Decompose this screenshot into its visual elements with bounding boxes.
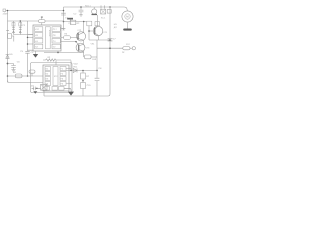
diode D1 on left bus (box with lead) <box>6 30 14 41</box>
capacitor box branch 2 <box>19 23 22 26</box>
wire right long vertical x110 to bottom rail <box>108 7 110 96</box>
wire left vertical bus x7.5 <box>7 11 9 83</box>
svg-text:K1.1: K1.1 <box>101 17 106 20</box>
svg-text:SF: SF <box>122 51 125 54</box>
svg-text:R10: R10 <box>92 58 97 61</box>
crystal ZQ box with X <box>41 84 47 90</box>
capacitor C2 to ground from top rail x81 <box>79 7 84 16</box>
ground stem under IC1 <box>35 51 37 54</box>
IC2 pin box L4 <box>45 82 51 86</box>
svg-text:M1: M1 <box>114 23 118 26</box>
svg-text:R7: R7 <box>86 75 90 78</box>
IC2 pin box R4 <box>60 82 66 86</box>
terminal circle right edge <box>130 47 135 50</box>
wires bus to IC1 left pins <box>28 35 34 51</box>
small box below rail x107-111 <box>107 10 111 14</box>
switch contacts on top rail <box>101 5 105 8</box>
svg-text:C8: C8 <box>99 67 103 70</box>
node dot at (71,70.5) <box>70 70 71 71</box>
motor M1 <box>122 11 133 22</box>
node dot at (83,70.5) <box>82 70 84 72</box>
svg-text:C8: C8 <box>53 34 57 37</box>
transistor VT2 <box>61 22 86 41</box>
node dot at (36.9,88.3) <box>36 88 37 89</box>
wire under IC1 y52.5 <box>44 52 84 54</box>
IC1 bottom pin stub x58 <box>57 51 59 53</box>
dark blob above fuse <box>41 17 43 18</box>
wire top-right rail y7 to motor <box>64 7 128 11</box>
resistor R2 box on mid rail <box>70 20 75 24</box>
IC2 outline <box>43 65 69 91</box>
wire step vertical x63.5 <box>63 7 65 30</box>
wire into IC2 y76 <box>8 75 44 77</box>
resistor pill after VT3 emitter <box>84 55 97 59</box>
IC1 pin box R1 <box>52 27 60 32</box>
node junction at (7.5,10.5) <box>7 10 9 12</box>
wire corner down x71 <box>70 61 72 71</box>
capacitor C1 on x63.5 <box>61 13 66 15</box>
ground triangle at bottom rail <box>68 92 74 96</box>
IC2 pin box L3 <box>45 77 51 81</box>
svg-text:SA1.1: SA1.1 <box>85 4 92 7</box>
diode VD2 <box>73 69 77 73</box>
svg-text:R3: R3 <box>48 56 52 59</box>
node junction at (63.5,10.5) <box>63 10 65 12</box>
svg-text:ДП: ДП <box>114 26 117 29</box>
ground triangle under IC1 <box>33 54 38 58</box>
zener diode VD branch 2 <box>19 28 22 33</box>
IC1 pin box R3 <box>52 38 60 43</box>
stub crystal box to bottom rail <box>43 90 45 96</box>
IC2 pin box L1 <box>45 67 51 71</box>
wire IC2 to ground corner <box>64 88 71 91</box>
IC2 middle tall box <box>53 67 58 86</box>
svg-text:K8: K8 <box>35 34 38 37</box>
IC2 right pin stubs <box>66 68 72 83</box>
stub zigzag wire to IC2 module <box>55 61 57 66</box>
ground bar under motor <box>123 29 132 31</box>
svg-text:VD2: VD2 <box>74 63 79 66</box>
small box above x89 vertical <box>87 21 92 26</box>
node junction at (81,7) <box>80 6 82 8</box>
resistor R3 zigzag on wire y60 <box>43 59 71 61</box>
svg-text:C2: C2 <box>74 13 78 16</box>
node junction at (7.5,63.5) <box>7 63 9 65</box>
capacitor C6 to ground from left bus <box>8 64 16 73</box>
capacitor box branch 1 <box>12 23 15 26</box>
node dot at (110,48.2) <box>109 47 111 49</box>
node dot at (97,70.5) <box>96 70 97 71</box>
wire vertical x89 to corner y40 <box>88 26 90 40</box>
IC2 bottom row box 2 <box>52 87 58 91</box>
node dot at (27.5,44) <box>27 43 29 45</box>
module outer box around IC2 <box>31 63 73 93</box>
svg-text:R2: R2 <box>77 22 81 25</box>
IC1 pin box L2 <box>35 33 43 38</box>
IC2 bottom row box 1 <box>45 87 50 91</box>
resistor R7 vertical box <box>81 71 86 83</box>
svg-text:C10: C10 <box>87 84 92 87</box>
wire stem from C4 plate <box>69 20 71 22</box>
svg-text:C6: C6 <box>17 61 21 64</box>
fuse FU1 pill on wire y21 <box>39 20 46 23</box>
svg-text:VT3: VT3 <box>86 46 91 49</box>
svg-text:K2: K2 <box>35 46 38 49</box>
svg-text:R11: R11 <box>74 65 79 68</box>
capacitor in crystal cluster <box>32 87 41 91</box>
svg-text:C2: C2 <box>53 46 57 49</box>
IC1 middle tall box <box>45 27 50 49</box>
node junction at (83.7,21.5) <box>83 21 85 23</box>
component pill near bus top of module <box>29 70 35 76</box>
IC1 pin box R4 <box>52 44 60 49</box>
node dot at (110,40) <box>109 39 111 41</box>
transistor VT3 <box>61 40 85 57</box>
node dot at (89,31) <box>88 30 90 32</box>
capacitor C8 on x97 <box>95 78 100 80</box>
op-amp/MCU IC1 outline <box>33 25 61 51</box>
svg-text:VS1: VS1 <box>91 43 96 46</box>
wire top-left rail y10.5 <box>6 10 64 12</box>
svg-text:C3: C3 <box>22 24 26 27</box>
capacitor C4 dark plate <box>67 18 73 20</box>
IC2 pin box R2 <box>60 72 66 76</box>
IC1 pin box L1 <box>35 27 43 32</box>
node dot at (83,80.7) <box>82 80 83 81</box>
wire diode row y70.5 <box>66 70 97 72</box>
wire bottom rail y96 <box>44 95 108 97</box>
svg-text:VD: VD <box>10 53 13 56</box>
wire top of dropper branches y21 <box>8 20 39 22</box>
svg-text:IC2: IC2 <box>54 75 58 78</box>
wire y21 right of fuse <box>45 20 63 22</box>
ground bars below C1 <box>62 29 66 30</box>
svg-text:IC1 KP: IC1 KP <box>48 30 51 37</box>
resistor R17 pill <box>123 47 130 50</box>
svg-text:R17: R17 <box>126 43 131 46</box>
stem above fuse <box>41 18 43 20</box>
connector X1 (AC input terminal) <box>3 9 6 13</box>
wire y40 to x110 <box>89 39 110 41</box>
resistor R5 pill on VT2 base wire <box>64 36 71 40</box>
svg-text:K17: K17 <box>35 28 40 31</box>
IC2 bottom row box 3 <box>59 87 65 91</box>
zener diode VD1 on left bus <box>6 54 10 58</box>
wire vertical x97 <box>96 40 98 96</box>
node dot at (20.3,21) <box>20 20 22 22</box>
relay coil K1 (circle with dark bar) <box>92 7 98 15</box>
wire middle bus x27.5 <box>27 21 29 76</box>
wire motor to ground <box>127 22 129 28</box>
svg-text:ZQ: ZQ <box>31 85 34 88</box>
node dot at (27.5,76) <box>27 75 29 77</box>
node dot at (76,41.6) <box>75 41 77 43</box>
IC2 pin box R3 <box>60 77 66 81</box>
transistor VT1 <box>89 15 103 40</box>
IC1 pin box L4 <box>35 44 43 49</box>
wire dropper branch 1 vertical x13.5 <box>13 21 15 35</box>
node dot at (27.5,37.4) <box>27 37 29 39</box>
resistor R4 pill on wire y76 <box>15 74 22 78</box>
stub fuse to IC1 top <box>41 23 43 25</box>
wire dropper branch 2 vertical x20.3 <box>19 21 21 35</box>
IC1 pin box L3 <box>35 38 43 43</box>
resistor/cap vertical box 2 on x83 <box>81 83 86 97</box>
wire branch bottoms to IC1 y34.5 <box>14 34 34 36</box>
svg-text:C5: C5 <box>20 50 24 53</box>
capacitor C5 in bus <box>25 51 29 53</box>
zener diode VD branch 1 <box>12 28 15 33</box>
svg-text:C17: C17 <box>53 28 58 31</box>
IC1 pin box R2 <box>52 33 60 38</box>
svg-text:C7: C7 <box>113 37 117 40</box>
svg-text:VT2: VT2 <box>77 29 82 32</box>
svg-text:C6: C6 <box>31 51 35 54</box>
IC2 pin box L2 <box>45 72 51 76</box>
wire mid rail y21.5 <box>64 21 88 23</box>
capacitor C7 on x110 <box>108 39 113 41</box>
svg-text:R5: R5 <box>64 32 68 35</box>
component box with X below switch <box>101 9 106 14</box>
svg-text:M: M <box>126 15 129 19</box>
wire right rail y48.2 <box>97 47 123 49</box>
wire into IC2 y82.5 <box>8 81 44 83</box>
node junction at (110,7) <box>109 6 111 8</box>
svg-text:R4: R4 <box>13 71 17 74</box>
node dot at (58,52.5) <box>57 52 59 54</box>
node dot at (7.5,76) <box>7 75 9 77</box>
svg-text:C4: C4 <box>53 40 57 43</box>
small ground triangle in cluster <box>33 91 37 94</box>
node junction at (63.5,21.5) <box>63 21 65 23</box>
svg-text:K4: K4 <box>35 40 38 43</box>
IC2 pin box R1 <box>60 67 66 71</box>
stub IC1 right pin to x63.5 <box>61 28 64 30</box>
svg-text:VT1: VT1 <box>103 31 108 34</box>
